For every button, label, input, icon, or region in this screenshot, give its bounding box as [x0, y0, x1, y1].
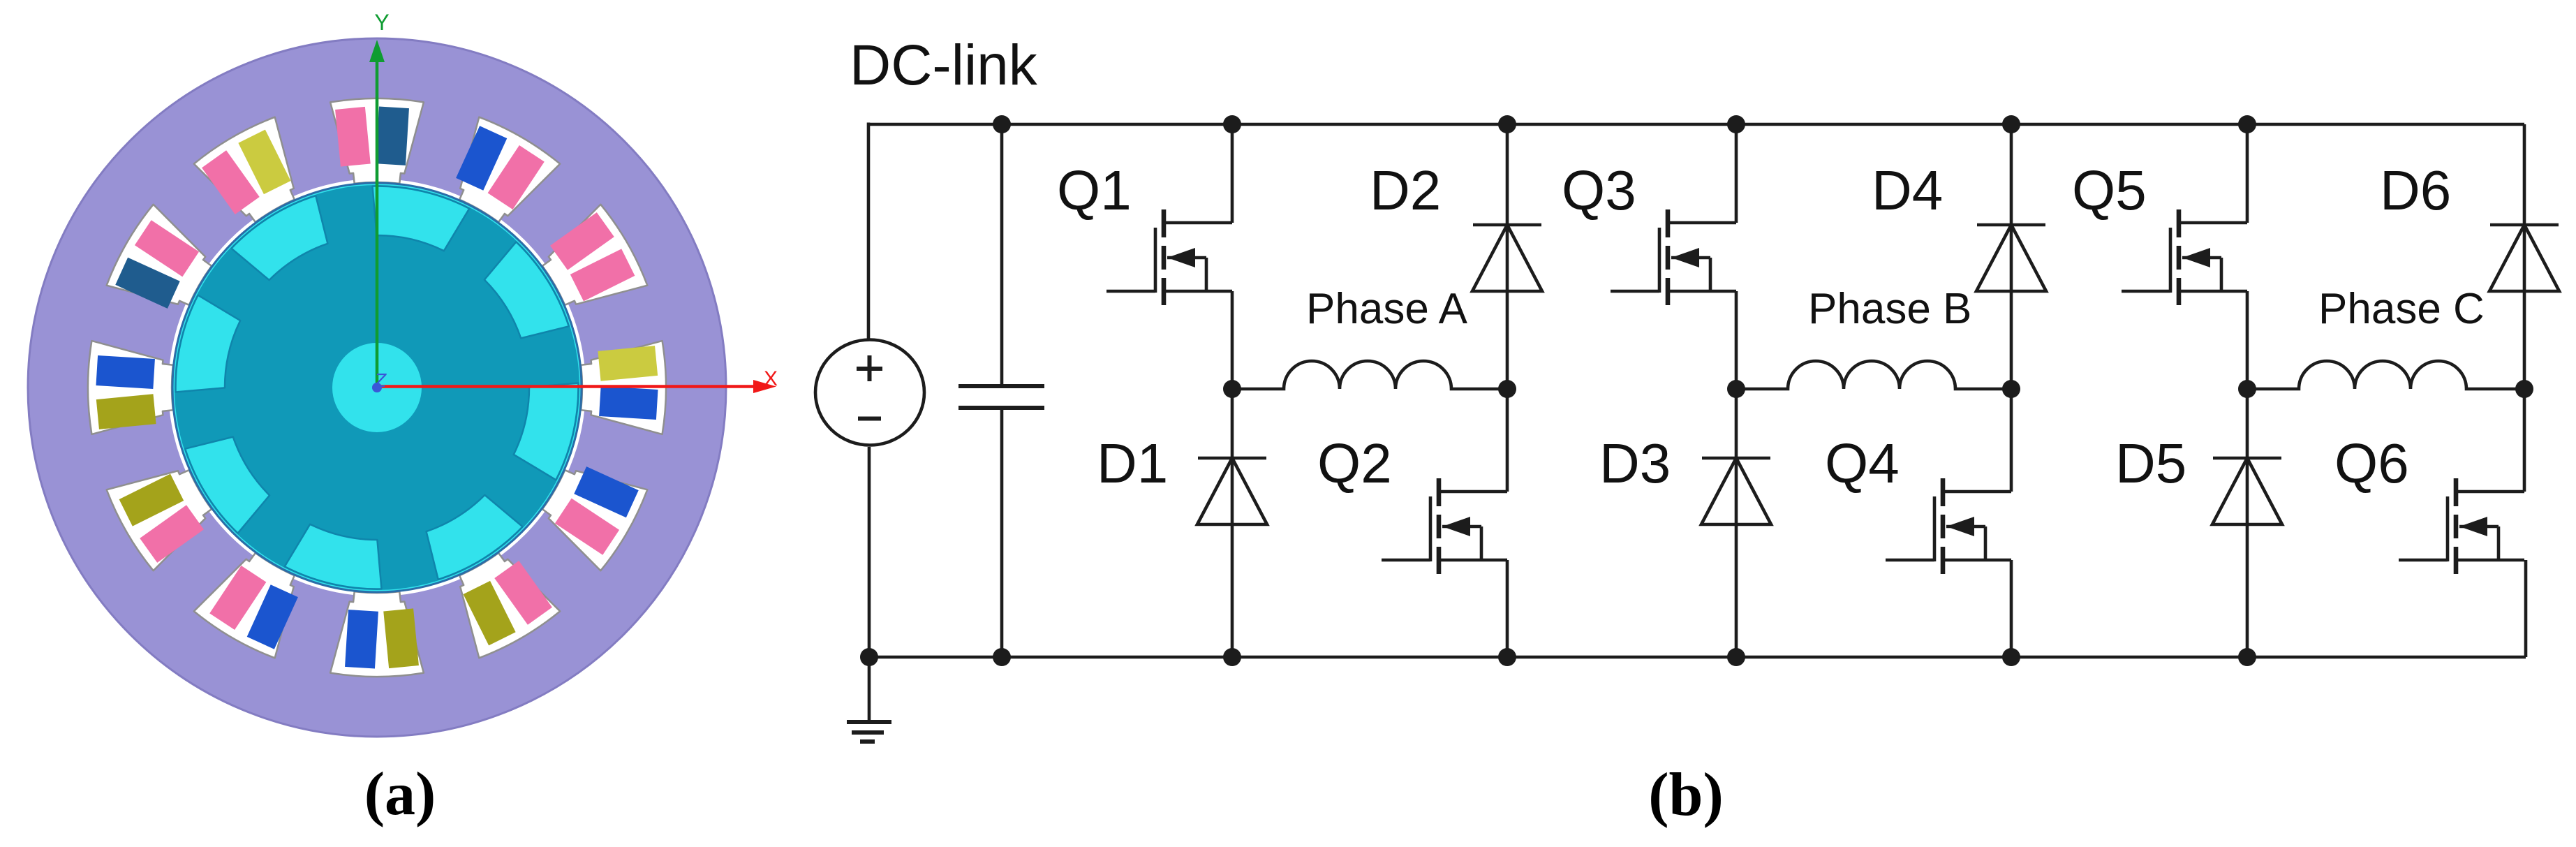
svg-text:Q3: Q3	[1562, 159, 1636, 221]
diode D4	[1976, 225, 2046, 291]
svg-text:(b): (b)	[1648, 761, 1724, 829]
stator yoke	[28, 38, 726, 737]
wire phase node to bottom bus through D1	[1231, 389, 1234, 657]
svg-text:D1: D1	[1097, 432, 1168, 494]
wire Q6 source to bottom bus	[2524, 560, 2528, 657]
coil in slot 0 deg side -	[599, 386, 658, 420]
stator slot at 0 deg	[581, 341, 666, 434]
svg-text:D5: D5	[2115, 432, 2186, 494]
shaft	[332, 343, 422, 432]
wire top bus through D2 to phase node	[1506, 124, 1509, 389]
coil in slot 330 deg side -	[555, 499, 619, 555]
svg-text:Y: Y	[374, 10, 389, 35]
coil in slot 0 deg side +	[598, 346, 658, 381]
svg-text:Z: Z	[373, 369, 387, 391]
wire phase node to bottom bus through D3	[1735, 389, 1738, 657]
transistor Q6 (MOSFET)	[2399, 478, 2524, 574]
svg-text:Q1: Q1	[1057, 159, 1132, 221]
wire Q1 source to phase node	[1231, 291, 1234, 389]
stator slot at 120 deg	[194, 117, 295, 222]
coil in slot 60 deg side -	[488, 145, 545, 209]
rotor pole at 122 deg	[231, 196, 327, 280]
svg-text:DC-link: DC-link	[850, 34, 1038, 97]
svg-text:Q2: Q2	[1317, 432, 1392, 494]
wire top bus to Q3 drain	[1735, 124, 1738, 223]
svg-text:X: X	[764, 367, 778, 390]
wire Q3 source to phase node	[1735, 291, 1738, 389]
stator slot at 240 deg	[194, 553, 295, 658]
svg-text:Q5: Q5	[2072, 159, 2147, 221]
coil in slot 120 deg side +	[202, 150, 260, 214]
wire top DC bus	[868, 123, 2524, 126]
rotor pole at 347 deg	[514, 383, 579, 480]
coil in slot 150 deg side +	[115, 258, 179, 309]
diode D3	[1701, 458, 1771, 524]
coil in slot 180 deg side -	[96, 355, 154, 389]
svg-text:Q4: Q4	[1825, 432, 1900, 494]
inductor Phase C	[2247, 361, 2524, 389]
coil in slot 120 deg side -	[238, 130, 290, 195]
wire DC source top lead	[867, 123, 871, 341]
coil in slot 30 deg side +	[550, 212, 614, 270]
axis X	[377, 367, 778, 393]
svg-text:Phase B: Phase B	[1808, 285, 1971, 333]
coil in slot 90 deg side -	[376, 106, 409, 165]
diode D5	[2212, 458, 2282, 524]
wire top bus to Q5 drain	[2246, 124, 2249, 223]
stator slot at 180 deg	[88, 341, 173, 434]
transistor Q2 (MOSFET)	[1382, 478, 1507, 574]
junction nodes on bottom bus	[860, 648, 2256, 666]
svg-text:D4: D4	[1872, 159, 1943, 221]
wire top bus to Q1 drain	[1231, 124, 1234, 223]
coil in slot 270 deg side +	[383, 608, 419, 668]
wire capacitor top lead	[1000, 124, 1004, 386]
coil in slot 300 deg side -	[464, 581, 516, 646]
ground	[847, 657, 891, 742]
coil in slot 300 deg side +	[494, 561, 552, 625]
stator bore	[168, 179, 586, 596]
stator slot at 300 deg	[459, 553, 560, 658]
transistor Q5 (MOSFET)	[2122, 209, 2247, 305]
coil in slot 150 deg side -	[135, 220, 199, 277]
junction nodes on phase rail	[1223, 380, 2533, 398]
coil in slot 240 deg side -	[209, 566, 266, 630]
rotor pole at 167 deg	[176, 295, 241, 392]
wire phase node to Q4 drain	[2010, 389, 2013, 492]
rotor pole at 77 deg	[373, 186, 470, 251]
wire phase node to bottom bus through D5	[2246, 389, 2249, 657]
wire top bus through D4 to phase node	[2010, 124, 2013, 389]
svg-text:(a): (a)	[364, 760, 436, 828]
diode D2	[1472, 225, 1542, 291]
rotor pole at 302 deg	[427, 495, 523, 580]
stator slot at 210 deg	[107, 470, 212, 570]
coil in slot 330 deg side +	[574, 466, 638, 517]
coil in slot 210 deg side -	[119, 474, 184, 526]
wire Q5 source to phase node	[2246, 291, 2249, 389]
coil in slot 30 deg side -	[570, 249, 635, 301]
stator slot at 30 deg	[542, 205, 647, 305]
inductor Phase B	[1736, 361, 2011, 389]
stator slot at 60 deg	[459, 117, 560, 222]
junction nodes on top bus	[993, 115, 2256, 133]
svg-text:Q6: Q6	[2334, 432, 2409, 494]
svg-text:D6: D6	[2380, 159, 2451, 221]
wire phase node to Q6 drain	[2523, 389, 2526, 492]
svg-text:D2: D2	[1370, 159, 1441, 221]
svg-text:Phase A: Phase A	[1306, 285, 1468, 333]
diode D6	[2489, 225, 2559, 291]
transistor Q3 (MOSFET)	[1611, 209, 1736, 305]
stator slot at 150 deg	[107, 205, 212, 305]
rotor pole at 32 deg	[484, 242, 569, 338]
wire Q2 source to bottom bus	[1506, 560, 1509, 657]
coil in slot 60 deg side +	[456, 126, 507, 190]
coil in slot 90 deg side +	[335, 107, 371, 167]
stator slot at 270 deg	[330, 591, 424, 677]
wire Q4 source to bottom bus	[2010, 560, 2013, 657]
coil in slot 210 deg side +	[140, 505, 204, 563]
inductor Phase A	[1232, 361, 1507, 389]
axis Z marker	[372, 369, 387, 392]
wire capacitor bottom lead	[1000, 408, 1004, 657]
stator slot at 90 deg	[330, 98, 424, 184]
axis Y	[369, 10, 390, 388]
coil in slot 270 deg side -	[345, 610, 378, 668]
coil in slot 180 deg side +	[96, 394, 156, 429]
svg-text:D3: D3	[1599, 432, 1671, 494]
rotor rim	[172, 183, 582, 592]
voltage source V1	[815, 340, 924, 445]
svg-text:Phase C: Phase C	[2318, 285, 2485, 333]
coil in slot 240 deg side +	[247, 584, 298, 649]
stator slot at 330 deg	[542, 470, 647, 570]
transistor Q1 (MOSFET)	[1106, 209, 1232, 305]
diode D1	[1197, 458, 1267, 524]
capacitor C1	[958, 386, 1044, 408]
rotor pole at 212 deg	[185, 437, 269, 533]
wire top bus through D6 to phase node	[2523, 124, 2526, 389]
rotor pole at 257 deg	[285, 524, 382, 589]
transistor Q4 (MOSFET)	[1886, 478, 2011, 574]
wire bottom DC bus	[869, 656, 2526, 659]
wire phase node to Q2 drain	[1506, 389, 1509, 492]
rotor body	[175, 185, 579, 590]
wire DC source bottom lead	[868, 447, 871, 657]
